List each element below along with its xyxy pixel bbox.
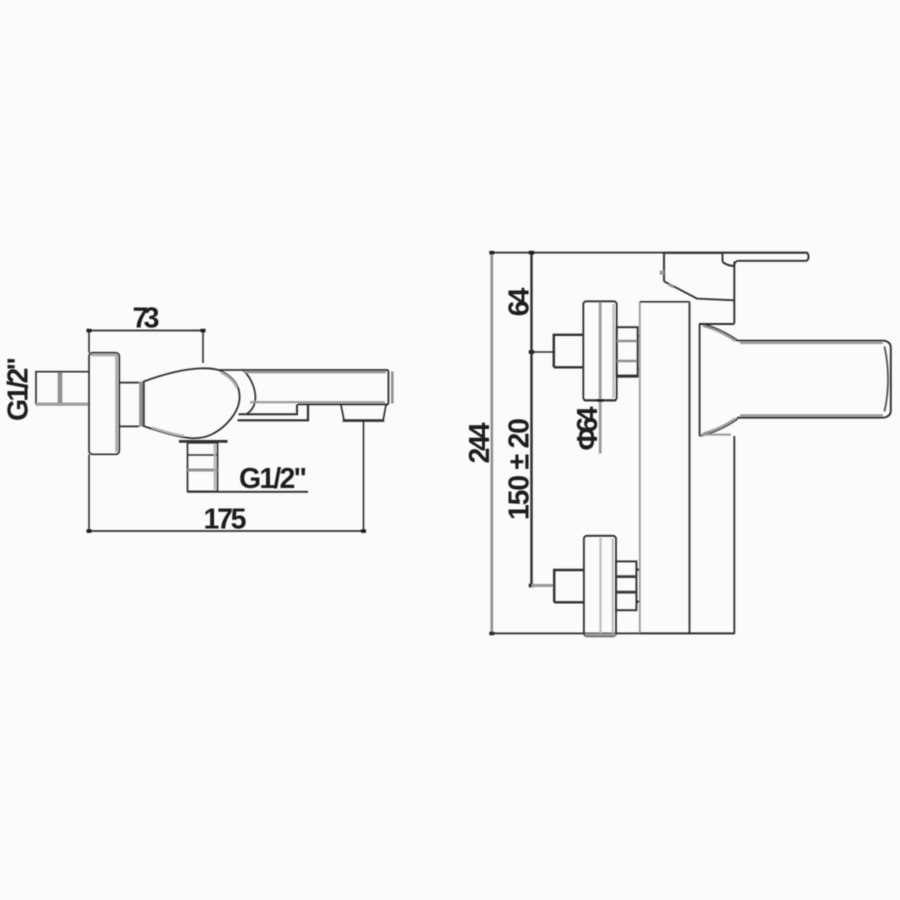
spout root back edge bottom: [701, 434, 732, 436]
spout root back edge top (side view): [700, 323, 735, 325]
cap side button mark: [660, 271, 664, 275]
svg-text:73: 73: [133, 303, 160, 335]
dim 175 tick left: [87, 529, 92, 533]
body left edge (gray): [639, 302, 641, 634]
spout top edge (left view): [219, 369, 388, 371]
dim 64 tick at upper connection: [529, 350, 534, 354]
body bottom edge: [640, 632, 736, 634]
upper nut bottom edge: [617, 375, 638, 377]
spout bottom edge: [298, 403, 389, 405]
spout root top shoulder shadow: [703, 326, 736, 341]
body inner shading arc (right side): [221, 373, 237, 388]
lever top edge: [723, 252, 806, 254]
nozzle bottom inner shadow: [740, 414, 883, 416]
lever left end: [722, 253, 724, 262]
connector junction shadow: [139, 382, 144, 427]
spout end shadow line: [391, 372, 394, 404]
lever underside curl: [723, 262, 734, 266]
aerator bottom edge: [343, 419, 385, 422]
dim 73 tick right: [201, 329, 206, 333]
spout root top shoulder: [700, 324, 738, 341]
outlet thread line 1: [188, 454, 218, 456]
collar right edge: [733, 262, 735, 324]
dim 175 line: [89, 530, 364, 532]
wall plate (escutcheon, left view): [89, 353, 119, 455]
dim 64 tick top: [529, 251, 534, 255]
svg-text:175: 175: [204, 504, 247, 536]
upper nut back flange ticks: [638, 336, 640, 369]
svg-text:G1/2": G1/2": [3, 357, 35, 421]
lower connector nut (side view): [616, 561, 636, 610]
top extension line: [491, 252, 808, 254]
cap slant edge: [664, 281, 734, 300]
spout root left edge: [699, 324, 701, 436]
lower escutcheon right shadow: [612, 538, 614, 633]
dim 244 tick top: [489, 251, 494, 255]
wall plate right shadow: [115, 355, 118, 452]
spout root bottom shoulder shadow: [703, 419, 736, 434]
lower escutcheon bottom shadow: [585, 633, 616, 636]
lower nut back flange ticks: [636, 570, 639, 602]
upper wall nipple (side view): [554, 335, 584, 368]
outlet threaded connection G1/2 (left view): [188, 443, 218, 492]
nozzle end cap inner arc: [885, 347, 889, 412]
cap slant tick: [669, 284, 674, 287]
tick at phi64 extension top: [597, 399, 603, 402]
svg-text:64: 64: [504, 288, 536, 317]
dim 175 extension right (from aerator): [363, 422, 365, 534]
wall nipple thread divider: [58, 373, 63, 404]
svg-text:150 ± 20: 150 ± 20: [504, 418, 536, 520]
outlet right inner shadow: [214, 444, 216, 490]
leader at lower connection center (gray): [532, 584, 555, 587]
body right edge: [689, 302, 691, 634]
dim 73 tick left: [87, 329, 92, 333]
dim 73 extension line left / plate edge line: [88, 331, 90, 353]
dim 64/150 line (vertical, dark): [530, 253, 532, 586]
leader at upper connection center: [532, 351, 554, 353]
lower escutcheon inner line: [599, 538, 601, 634]
dim 73 line: [89, 330, 203, 332]
wall nipple (left view) G1/2 inlet pipe: [36, 372, 89, 405]
connector block between plate and body: [119, 383, 139, 427]
lower wall nipple (side view): [554, 570, 584, 602]
lever bottom edge: [738, 260, 806, 262]
spout root bottom shoulder: [700, 419, 738, 436]
svg-text:G1/2": G1/2": [239, 463, 307, 495]
dim 175 extension left: [88, 455, 90, 534]
upper escutcheon (side view): [583, 301, 616, 400]
dim 244 tick bottom: [489, 632, 494, 636]
nozzle top inner shadow: [740, 342, 883, 344]
lever right end cap: [806, 253, 809, 261]
mixer body (egg shape, left view): [144, 368, 240, 438]
wall nipple bottom shadow: [36, 403, 89, 406]
spout fairing arc (behind body, left view): [243, 370, 256, 414]
nozzle bottom edge: [737, 417, 884, 419]
lower nut facet line 2: [616, 591, 636, 594]
upper nut facet line 1: [617, 340, 637, 342]
dim 73 extension line right: [202, 331, 204, 363]
nozzle top edge: [737, 340, 884, 342]
body inner shading (lower left): [152, 428, 184, 436]
upper connector nut (side view): [617, 327, 638, 377]
cap left edge: [663, 253, 665, 281]
outlet thread line 2: [188, 469, 218, 472]
outlet flange under body: [179, 440, 228, 443]
dim 244 line (vertical, gray): [490, 253, 493, 634]
aerator (spout outlet, left view): [341, 405, 386, 420]
spout underside step 2: [238, 405, 309, 421]
spout top inner shadow: [244, 371, 386, 373]
wall plate top shadow: [91, 354, 117, 357]
spout bottom inner shadow: [250, 401, 385, 403]
upper nut facet line 2: [617, 360, 637, 362]
slab right edge lower segment: [733, 436, 735, 633]
cap top edge (thicker overlay): [664, 252, 723, 254]
dim 150 tick at lower connection: [529, 584, 534, 588]
upper escutcheon bottom edge (darker): [584, 399, 617, 401]
lower nut facet line 1: [616, 575, 636, 578]
dim 175 tick right: [361, 529, 366, 533]
upper escutcheon inner line / phi64 extension: [599, 303, 602, 454]
spout underside step 1: [239, 405, 298, 415]
spout right end cap: [387, 370, 388, 405]
lower escutcheon (side view): [584, 536, 616, 636]
nozzle end cap outer: [884, 341, 891, 418]
lever bottom fillet: [734, 261, 738, 266]
body top edge: [640, 301, 690, 303]
upper escutcheon right shadow: [612, 304, 614, 398]
bottom extension line: [490, 632, 640, 634]
leader line under G1/2 label: [188, 491, 309, 493]
svg-text:Φ64: Φ64: [572, 406, 604, 450]
svg-text:244: 244: [464, 422, 496, 463]
